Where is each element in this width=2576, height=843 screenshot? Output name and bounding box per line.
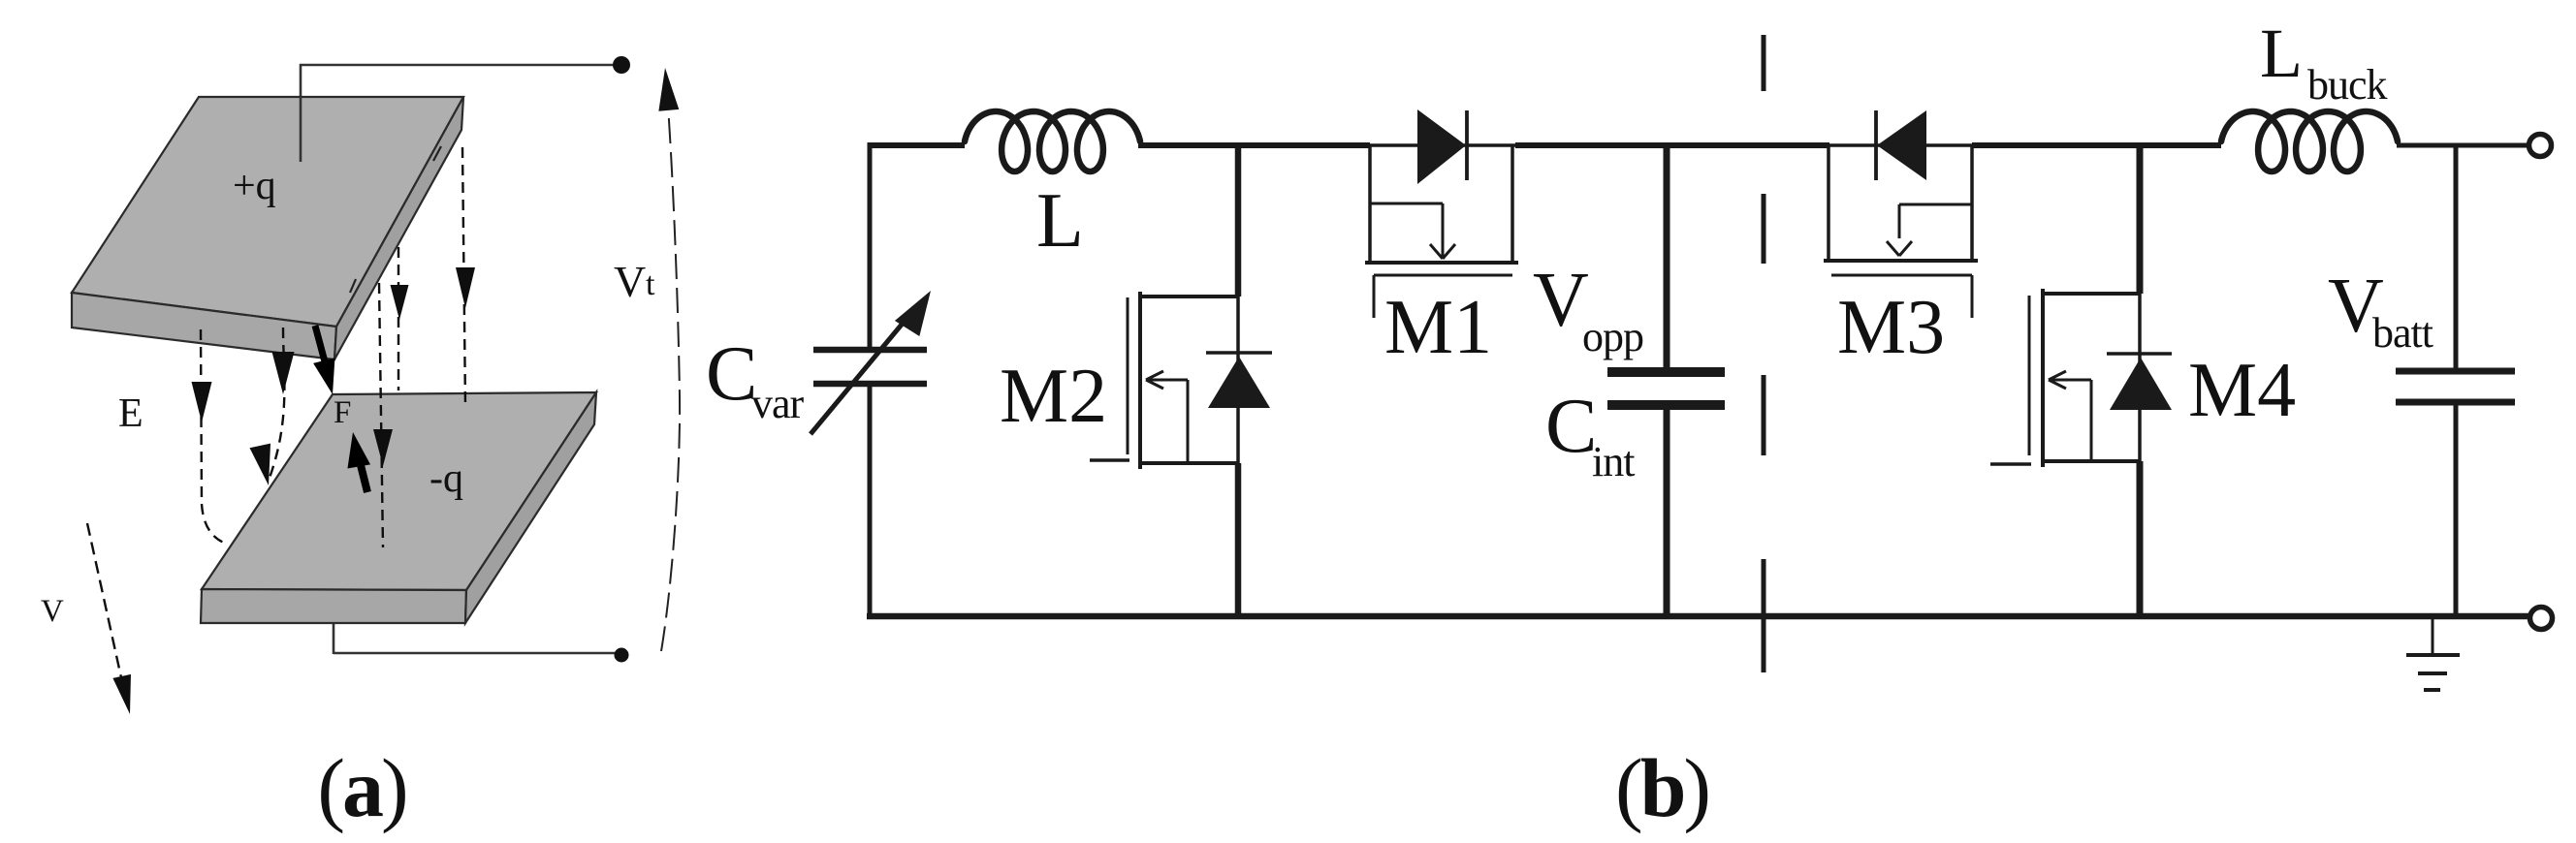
- svg-text:M4: M4: [2188, 348, 2296, 433]
- svg-text:buck: buck: [2307, 61, 2388, 109]
- svg-text:V: V: [41, 594, 64, 629]
- svg-text:M3: M3: [1837, 285, 1945, 370]
- svg-text:C: C: [706, 331, 757, 417]
- svg-text:C: C: [1545, 384, 1597, 469]
- svg-text:M2: M2: [1000, 354, 1107, 439]
- svg-text:t: t: [646, 266, 655, 302]
- svg-text:batt: batt: [2372, 309, 2433, 357]
- svg-text:V: V: [1533, 258, 1589, 343]
- svg-text:-q: -q: [429, 456, 463, 501]
- svg-text:E: E: [118, 391, 143, 436]
- svg-text:var: var: [751, 380, 805, 427]
- svg-text:L: L: [1036, 178, 1084, 264]
- svg-text:int: int: [1592, 438, 1635, 485]
- svg-text:+q: +q: [233, 164, 276, 208]
- svg-text:M1: M1: [1384, 285, 1492, 370]
- svg-text:(a): (a): [317, 741, 405, 834]
- svg-text:V: V: [614, 257, 646, 306]
- svg-text:(b): (b): [1615, 741, 1708, 834]
- svg-text:F: F: [334, 395, 351, 430]
- svg-text:opp: opp: [1582, 313, 1643, 360]
- svg-text:L: L: [2260, 15, 2303, 92]
